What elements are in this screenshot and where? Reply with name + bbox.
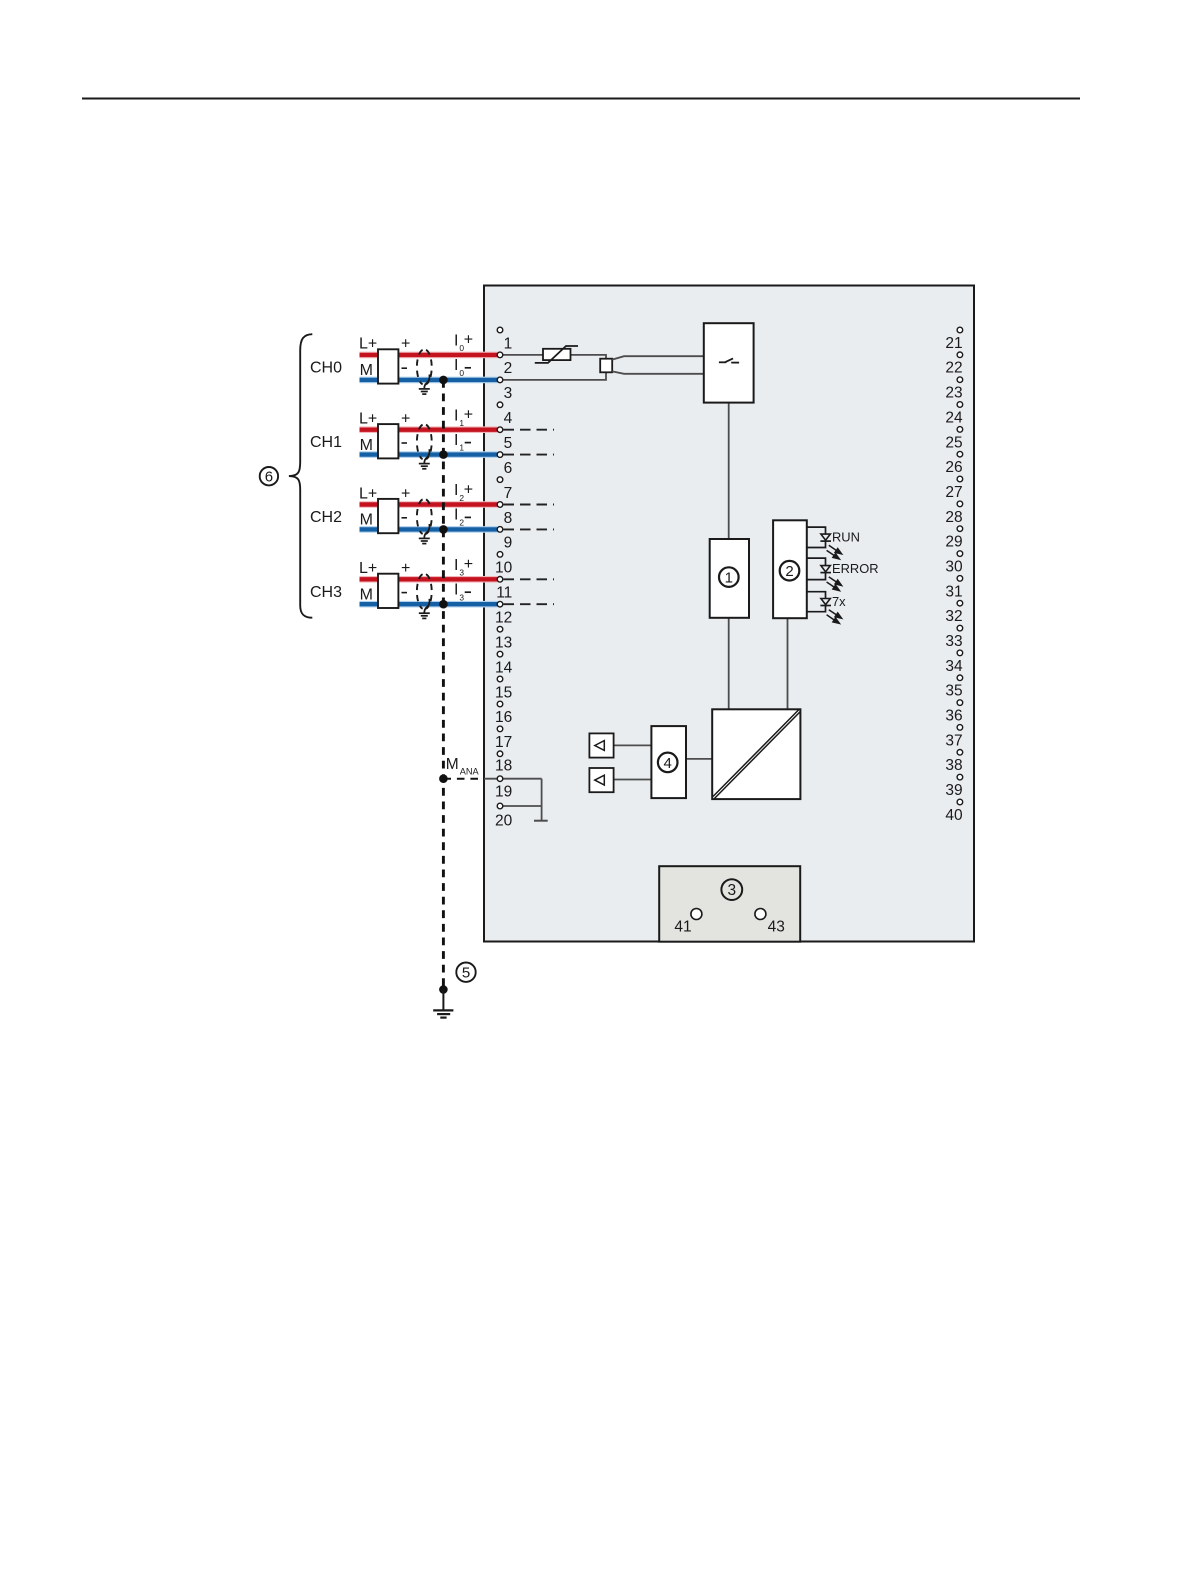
- svg-text:30: 30: [945, 559, 963, 576]
- svg-text:6: 6: [265, 469, 273, 486]
- ground symbol: [433, 1009, 453, 1011]
- terminal circle right row 32: [957, 600, 963, 606]
- svg-text:16: 16: [495, 709, 512, 726]
- terminal circle left row 20: [497, 803, 503, 809]
- svg-text:2: 2: [459, 518, 464, 528]
- wire L+ (red) CH2: [360, 501, 498, 508]
- terminal circle right row 33: [957, 625, 963, 631]
- svg-text:ANA: ANA: [460, 766, 480, 776]
- wire switchbox to block1: [728, 403, 730, 539]
- wire M (blue) CH2: [360, 526, 498, 533]
- wire M (blue) CH3: [360, 601, 498, 608]
- svg-text:9: 9: [504, 535, 513, 552]
- svg-text:43: 43: [768, 918, 785, 935]
- svg-text:I: I: [454, 407, 458, 424]
- galvanic isolation block: [712, 709, 800, 799]
- terminal circle left row 19: [497, 776, 503, 782]
- svg-text:12: 12: [495, 610, 512, 627]
- svg-text:0: 0: [459, 368, 464, 378]
- terminal circle right row 29: [957, 526, 963, 532]
- label minus CH2: [402, 517, 408, 519]
- LED light arrows 7x: [829, 610, 842, 619]
- svg-text:28: 28: [945, 509, 962, 526]
- junction MANA: [439, 774, 448, 783]
- svg-text:I: I: [454, 507, 458, 524]
- svg-text:39: 39: [945, 782, 962, 799]
- shield drain CH0: [424, 375, 429, 389]
- svg-text:40: 40: [945, 807, 963, 824]
- terminal circle left row 5: [497, 427, 503, 433]
- terminal circle right row 25: [957, 427, 963, 433]
- wire varistor to input square: [571, 355, 607, 359]
- svg-text:19: 19: [495, 783, 512, 800]
- svg-text:18: 18: [495, 758, 512, 775]
- shield drain CH1: [424, 449, 429, 463]
- svg-text:+: +: [401, 336, 410, 353]
- svg-text:I: I: [454, 357, 458, 374]
- svg-text:5: 5: [462, 965, 470, 982]
- LED light arrows RUN: [829, 545, 842, 554]
- svg-text:3: 3: [504, 385, 513, 402]
- junction CH2 shield to bus: [439, 525, 448, 534]
- svg-text:I: I: [454, 432, 458, 449]
- block 4: [651, 726, 686, 798]
- svg-text:+: +: [401, 411, 410, 428]
- terminal circle right row 27: [957, 476, 963, 482]
- svg-text:+: +: [464, 407, 473, 424]
- svg-text:+: +: [464, 481, 473, 498]
- functional earth bar: [534, 820, 548, 822]
- wire L+ (red) CH0: [360, 352, 498, 359]
- comparator box B: [589, 768, 613, 792]
- svg-text:4: 4: [664, 755, 672, 772]
- LED tab 7x: [807, 592, 826, 599]
- brace channels group: [289, 334, 312, 618]
- dashed stub terminal 8: [504, 528, 555, 530]
- svg-text:14: 14: [495, 659, 513, 676]
- dashed stub terminal 7: [504, 504, 555, 506]
- callout 5: [456, 963, 475, 982]
- dashed stub terminal 5: [504, 454, 555, 456]
- terminal circle right row 34: [957, 650, 963, 656]
- terminal circle right row 38: [957, 750, 963, 756]
- svg-text:M: M: [360, 586, 373, 603]
- wire L+ (red) CH1: [360, 426, 498, 433]
- LED diode RUN: [821, 534, 830, 540]
- svg-text:26: 26: [945, 459, 962, 476]
- label minus CH1: [402, 442, 408, 444]
- terminal circle left row 11: [497, 577, 503, 583]
- cable shield CH0: [417, 350, 423, 385]
- callout 6: [260, 467, 278, 485]
- svg-text:M: M: [360, 437, 373, 454]
- wire L+ (red) CH3: [360, 576, 498, 583]
- svg-text:CH2: CH2: [310, 509, 342, 526]
- svg-text:CH1: CH1: [310, 434, 342, 451]
- svg-text:13: 13: [495, 635, 512, 652]
- wire terminal1 to varistor: [500, 354, 543, 356]
- callout 3: [721, 879, 742, 900]
- terminal circle right row 23: [957, 377, 963, 383]
- svg-text:2: 2: [785, 563, 793, 580]
- svg-text:8: 8: [504, 510, 513, 527]
- svg-text:10: 10: [495, 560, 513, 577]
- junction ground: [439, 985, 448, 994]
- terminal circle left row 15: [497, 676, 503, 682]
- terminal circle left row 14: [497, 651, 503, 657]
- transducer CH2: [378, 499, 398, 533]
- terminal circle right row 39: [957, 774, 963, 780]
- wire terminal19: [500, 805, 542, 807]
- wire comparator B to block4: [614, 779, 652, 781]
- dashed stub terminal 4: [504, 429, 555, 431]
- transducer CH0: [378, 349, 398, 383]
- svg-text:22: 22: [945, 360, 962, 377]
- label minus CH0: [402, 367, 408, 369]
- svg-text:+: +: [464, 332, 473, 349]
- wire block2 to isolation: [787, 618, 789, 709]
- svg-text:34: 34: [945, 658, 963, 675]
- svg-text:I: I: [454, 582, 458, 599]
- svg-text:L+: L+: [359, 485, 377, 502]
- wire M (blue) CH0: [360, 377, 498, 384]
- svg-text:32: 32: [945, 608, 962, 625]
- svg-text:17: 17: [495, 734, 512, 751]
- terminal circle right row 21: [957, 327, 963, 333]
- terminal circle left row 3: [497, 377, 503, 383]
- svg-text:37: 37: [945, 732, 962, 749]
- LED diode ERROR: [821, 566, 830, 572]
- terminal circle right row 22: [957, 352, 963, 358]
- svg-text:23: 23: [945, 385, 962, 402]
- dashed stub terminal 11: [504, 603, 555, 605]
- svg-text:4: 4: [504, 410, 513, 427]
- terminal 43: [755, 909, 766, 920]
- block 1 ADC: [710, 539, 749, 618]
- junction CH0 shield to bus: [439, 376, 448, 385]
- svg-text:7: 7: [504, 485, 513, 502]
- svg-text:+: +: [401, 485, 410, 502]
- connector block 3: [659, 866, 800, 942]
- svg-text:CH0: CH0: [310, 359, 342, 376]
- terminal circle right row 37: [957, 725, 963, 731]
- svg-text:25: 25: [945, 434, 962, 451]
- terminal circle right row 24: [957, 402, 963, 408]
- svg-text:+: +: [464, 556, 473, 573]
- svg-text:41: 41: [674, 918, 691, 935]
- twisted pair funnel bottom: [612, 371, 704, 373]
- shield drain CH2: [424, 524, 429, 538]
- terminal circle left row 1: [497, 327, 503, 333]
- terminal 41: [691, 909, 702, 920]
- svg-text:5: 5: [504, 435, 513, 452]
- cable shield CH3: [417, 574, 423, 609]
- terminal circle left row 4: [497, 402, 503, 408]
- svg-text:L+: L+: [359, 411, 377, 428]
- svg-text:3: 3: [727, 882, 736, 899]
- svg-text:1: 1: [725, 570, 733, 587]
- terminal circle left row 2: [497, 352, 503, 358]
- shield earth CH2: [419, 537, 430, 539]
- svg-text:29: 29: [945, 534, 962, 551]
- terminal circle right row 26: [957, 451, 963, 457]
- wire block1 to isolation: [728, 618, 730, 710]
- wire terminal18 MANA: [484, 778, 542, 780]
- svg-text:24: 24: [945, 409, 963, 426]
- svg-text:L+: L+: [359, 336, 377, 353]
- svg-text:CH3: CH3: [310, 584, 342, 601]
- svg-text:36: 36: [945, 708, 962, 725]
- shield earth CH0: [419, 388, 430, 390]
- block 2 controller: [773, 520, 807, 618]
- terminal circle right row 31: [957, 576, 963, 582]
- shield earth CH1: [419, 463, 430, 465]
- LED diode 7x: [821, 599, 830, 605]
- switch box: [704, 323, 754, 402]
- svg-text:M: M: [360, 512, 373, 529]
- module body (gray block): [484, 286, 974, 942]
- LED tab RUN: [807, 527, 826, 534]
- wire terminal2 to input square: [500, 372, 606, 380]
- varistor (surge protector): [543, 349, 571, 360]
- twisted pair funnel top: [612, 356, 704, 359]
- svg-text:2: 2: [504, 360, 513, 377]
- svg-text:1: 1: [504, 335, 513, 352]
- svg-text:3: 3: [459, 592, 464, 602]
- terminal circle left row 7: [497, 477, 503, 483]
- callout 4: [658, 753, 678, 773]
- terminal circle left row 13: [497, 626, 503, 632]
- dashed stub terminal 10: [504, 578, 555, 580]
- svg-text:I: I: [454, 557, 458, 574]
- junction CH3 shield to bus: [439, 600, 448, 609]
- terminal circle right row 36: [957, 700, 963, 706]
- svg-text:38: 38: [945, 757, 962, 774]
- terminal circle left row 6: [497, 452, 503, 458]
- svg-text:1: 1: [459, 443, 464, 453]
- comparator box A: [589, 733, 613, 757]
- svg-text:RUN: RUN: [832, 530, 860, 545]
- svg-text:20: 20: [495, 813, 513, 830]
- svg-text:35: 35: [945, 683, 962, 700]
- wire comparator A to block4: [614, 744, 652, 746]
- svg-text:+: +: [401, 560, 410, 577]
- svg-text:I: I: [454, 333, 458, 350]
- wire block4 to isolation: [686, 758, 712, 760]
- input square (measuring shunt): [600, 359, 612, 373]
- terminal circle left row 8: [497, 502, 503, 508]
- terminal circle left row 16: [497, 701, 503, 707]
- svg-text:M: M: [360, 362, 373, 379]
- svg-text:11: 11: [496, 585, 512, 602]
- svg-text:M: M: [446, 756, 459, 773]
- wire down to functional earth: [541, 779, 543, 821]
- terminal circle right row 28: [957, 501, 963, 507]
- shield drain CH3: [424, 599, 429, 613]
- header rule: [82, 98, 1080, 100]
- ground lead: [442, 990, 444, 1011]
- switch contact symbol: [719, 361, 726, 363]
- terminal circle left row 10: [497, 552, 503, 558]
- terminal circle right row 40: [957, 799, 963, 805]
- svg-text:27: 27: [945, 484, 962, 501]
- junction CH1 shield to bus: [439, 450, 448, 459]
- wire M (blue) CH1: [360, 451, 498, 458]
- callout 2: [780, 561, 800, 581]
- svg-text:L+: L+: [359, 560, 377, 577]
- svg-text:I: I: [454, 482, 458, 499]
- cable shield CH2: [417, 499, 423, 534]
- svg-text:21: 21: [945, 335, 962, 352]
- transducer CH1: [378, 424, 398, 458]
- dashed link MANA to terminal 18: [443, 778, 484, 780]
- cable shield CH1: [417, 425, 423, 460]
- terminal circle left row 9: [497, 527, 503, 533]
- terminal circle right row 30: [957, 551, 963, 557]
- svg-text:7x: 7x: [832, 594, 846, 609]
- LED tab ERROR: [807, 558, 826, 566]
- svg-text:31: 31: [945, 583, 962, 600]
- shield bus (dashed): [442, 380, 445, 990]
- terminal circle left row 12: [497, 601, 503, 607]
- terminal circle left row 17: [497, 726, 503, 732]
- svg-text:33: 33: [945, 633, 962, 650]
- shield earth CH3: [419, 612, 430, 614]
- transducer CH3: [378, 574, 398, 608]
- callout 1: [719, 567, 739, 587]
- terminal circle right row 35: [957, 675, 963, 681]
- terminal circle left row 18: [497, 751, 503, 757]
- label minus CH3: [402, 592, 408, 594]
- svg-text:15: 15: [495, 684, 512, 701]
- LED light arrows ERROR: [829, 577, 842, 586]
- svg-text:ERROR: ERROR: [832, 561, 879, 576]
- svg-text:6: 6: [504, 460, 513, 477]
